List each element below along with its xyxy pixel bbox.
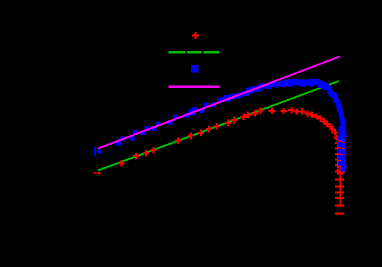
legend: red plus sample [192,32,199,39]
legend: blue square sample [191,65,198,72]
green fit line [98,81,339,171]
magenta fit line [98,56,340,148]
blue data series: square markers [94,78,346,171]
legend: green dashed line sample [169,51,220,53]
legend: magenta line sample [169,86,220,88]
red data series: plus markers [93,107,345,214]
